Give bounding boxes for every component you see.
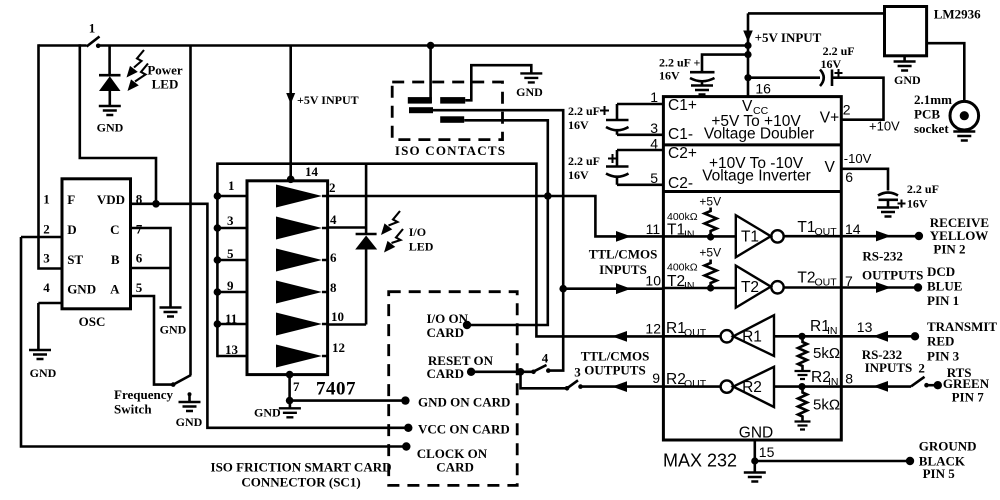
svg-text:PIN 1: PIN 1 [927,293,959,308]
svg-text:V+: V+ [820,110,839,127]
svg-text:ISO CONTACTS: ISO CONTACTS [395,143,506,158]
svg-text:GND: GND [516,85,543,99]
svg-text:VDD: VDD [97,192,125,207]
svg-text:OUT: OUT [815,226,838,238]
svg-text:CARD: CARD [436,460,474,475]
svg-text:GND: GND [67,282,96,297]
svg-text:GND ON CARD: GND ON CARD [418,395,510,410]
svg-text:8: 8 [330,280,337,295]
svg-text:GROUND: GROUND [919,439,977,454]
svg-text:10: 10 [331,309,344,324]
svg-text:CONNECTOR (SC1): CONNECTOR (SC1) [241,475,360,490]
svg-text:Voltage Doubler: Voltage Doubler [704,126,814,143]
svg-text:ST: ST [67,252,83,267]
svg-text:LED: LED [409,240,434,254]
svg-text:PCB: PCB [914,107,940,122]
svg-text:C2+: C2+ [668,145,697,162]
svg-text:8: 8 [136,192,143,207]
svg-text:2: 2 [329,180,336,195]
svg-text:PIN 2: PIN 2 [933,242,965,257]
svg-text:RS-232: RS-232 [862,249,902,264]
svg-text:OUT: OUT [815,277,838,289]
svg-text:3: 3 [43,251,50,266]
svg-text:LED: LED [152,77,179,92]
svg-text:CARD: CARD [427,366,465,381]
svg-text:+5V: +5V [699,246,721,260]
svg-text:MAX 232: MAX 232 [663,451,737,471]
svg-text:OUT: OUT [684,378,707,390]
svg-text:+5V: +5V [699,195,721,209]
svg-text:8: 8 [845,371,853,387]
svg-text:T1: T1 [741,229,759,246]
svg-text:4: 4 [330,212,337,227]
svg-text:16V: 16V [568,168,589,182]
svg-text:2: 2 [43,222,50,237]
svg-text:Voltage Inverter: Voltage Inverter [702,168,811,185]
svg-text:T1: T1 [797,219,815,236]
svg-text:5: 5 [650,170,658,186]
svg-text:1: 1 [228,178,235,193]
svg-text:Power: Power [147,63,183,78]
svg-text:D: D [67,222,76,237]
svg-text:GND: GND [254,406,281,420]
svg-text:DCD: DCD [927,264,955,279]
svg-text:GND: GND [176,415,203,429]
svg-text:3: 3 [650,120,658,136]
svg-text:T1: T1 [667,222,685,239]
svg-text:5kΩ: 5kΩ [813,397,840,414]
svg-text:LM2936: LM2936 [934,7,981,22]
svg-text:5: 5 [136,280,143,295]
svg-text:IN: IN [684,280,695,292]
svg-text:1: 1 [650,89,658,105]
svg-text:TTL/CMOS: TTL/CMOS [589,246,658,261]
svg-text:C: C [110,222,119,237]
svg-text:2.2 uF +: 2.2 uF + [659,56,701,70]
svg-text:BLUE: BLUE [927,279,962,294]
svg-text:C1+: C1+ [668,97,697,114]
svg-text:12: 12 [332,340,345,355]
svg-text:GND: GND [30,366,57,380]
svg-text:5: 5 [227,246,234,261]
svg-text:2: 2 [843,102,851,118]
svg-text:R1: R1 [742,329,762,346]
svg-text:6: 6 [845,169,853,185]
svg-text:16V: 16V [907,197,928,211]
svg-text:GND: GND [97,121,124,135]
svg-text:+10V: +10V [869,119,900,134]
svg-text:16V: 16V [568,118,589,132]
svg-text:VCC ON CARD: VCC ON CARD [418,422,510,437]
svg-text:INPUTS: INPUTS [865,360,913,375]
svg-text:-10V: -10V [844,151,872,166]
svg-text:15: 15 [759,444,775,460]
svg-text:10: 10 [645,273,661,289]
svg-text:IN: IN [827,325,838,337]
svg-text:12: 12 [645,321,661,337]
svg-text:Switch: Switch [114,402,152,417]
svg-text:F: F [67,192,75,207]
svg-text:T2: T2 [797,270,815,287]
svg-text:7: 7 [293,379,300,394]
svg-text:400kΩ: 400kΩ [667,262,698,274]
svg-text:TRANSMIT: TRANSMIT [927,319,997,334]
svg-text:16V: 16V [659,69,680,83]
svg-text:OUT: OUT [684,327,707,339]
svg-text:T2: T2 [667,273,685,290]
svg-text:GND: GND [739,425,773,442]
svg-text:PIN 3: PIN 3 [927,349,960,364]
svg-text:7407: 7407 [316,379,356,400]
svg-text:11: 11 [225,311,237,326]
svg-text:RED: RED [927,334,954,349]
svg-text:16: 16 [755,81,771,97]
svg-text:1: 1 [43,192,50,207]
svg-text:I/O: I/O [409,225,426,239]
svg-text:A: A [110,282,120,297]
svg-text:4: 4 [542,351,549,366]
svg-text:13: 13 [225,342,239,357]
svg-text:16V: 16V [821,57,842,71]
svg-text:R2: R2 [666,371,686,388]
svg-text:R1: R1 [666,320,686,337]
svg-text:OSC: OSC [79,314,106,329]
svg-text:7: 7 [136,222,143,237]
svg-text:3: 3 [574,365,581,380]
svg-text:400kΩ: 400kΩ [667,211,698,223]
svg-text:4: 4 [650,136,658,152]
svg-text:1: 1 [89,21,96,36]
svg-text:4: 4 [43,280,50,295]
svg-text:2.1mm: 2.1mm [914,92,952,107]
svg-text:6: 6 [136,251,143,266]
svg-text:2.2 uF: 2.2 uF [907,182,939,196]
svg-text:9: 9 [227,278,234,293]
svg-text:PIN 5: PIN 5 [923,466,956,481]
svg-text:INPUTS: INPUTS [599,262,647,277]
svg-text:I/O ON: I/O ON [427,311,469,326]
svg-text:+5V INPUT: +5V INPUT [297,93,359,107]
svg-text:5kΩ: 5kΩ [813,345,840,362]
svg-text:OUTPUTS: OUTPUTS [584,363,645,378]
svg-text:socket: socket [914,121,949,136]
svg-text:9: 9 [652,370,660,386]
svg-text:14: 14 [845,221,861,237]
svg-text:C2-: C2- [668,175,693,192]
svg-text:IN: IN [684,229,695,241]
svg-text:OUTPUTS: OUTPUTS [862,268,923,283]
svg-text:GND: GND [894,73,921,87]
svg-text:2.2 uF: 2.2 uF [568,104,600,118]
svg-text:3: 3 [227,213,234,228]
svg-text:GND: GND [160,323,187,337]
svg-text:CARD: CARD [427,325,465,340]
svg-text:6: 6 [330,250,337,265]
svg-text:14: 14 [305,164,319,179]
svg-text:B: B [111,252,120,267]
svg-text:R2: R2 [742,379,762,396]
svg-text:IN: IN [828,376,839,388]
svg-text:13: 13 [857,319,873,335]
svg-text:T2: T2 [741,279,759,296]
svg-text:PIN 7: PIN 7 [952,390,985,405]
svg-text:2: 2 [918,361,925,376]
svg-text:+5V INPUT: +5V INPUT [755,30,822,45]
svg-text:11: 11 [646,221,661,237]
svg-text:2.2 uF: 2.2 uF [823,44,855,58]
svg-text:7: 7 [845,273,853,289]
svg-text:ISO FRICTION SMART CARD: ISO FRICTION SMART CARD [211,460,392,475]
svg-text:Frequency: Frequency [114,387,173,402]
svg-text:TTL/CMOS: TTL/CMOS [581,348,650,363]
svg-text:2.2 uF: 2.2 uF [568,154,600,168]
svg-text:V: V [825,159,836,176]
svg-text:C1-: C1- [668,126,693,143]
